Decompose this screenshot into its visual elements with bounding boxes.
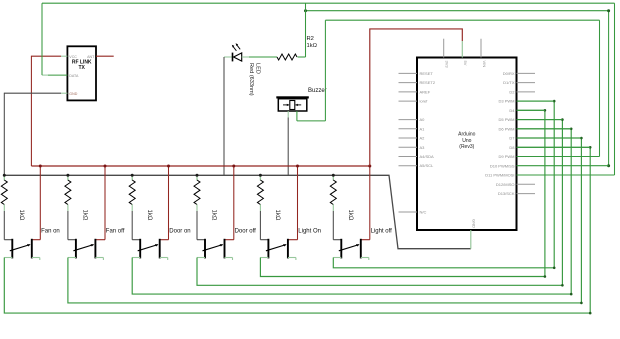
pushbutton S2 bottom right stub (green)	[95, 258, 103, 261]
wire RF VCC to red bus (red)	[31, 56, 67, 166]
svg-text:GND: GND	[472, 219, 477, 228]
svg-text:Door on: Door on	[169, 228, 190, 234]
Arduino pin D10 PWM/SS	[490, 163, 515, 168]
resistor R5 lead to button	[131, 205, 133, 240]
node junction staircase top 3	[570, 128, 573, 131]
node junction H2 start	[304, 9, 307, 12]
RF link TX pin label DATA	[69, 74, 79, 78]
svg-text:N/C: N/C	[420, 210, 427, 215]
buzzer BZ1 body	[276, 96, 309, 111]
Arduino pin A5/SCL	[399, 163, 435, 168]
wire buzzer pin2 to net H3 (green)	[297, 20, 326, 121]
svg-text:R2: R2	[307, 36, 314, 42]
pushbutton S1 bottom right stub (green)	[32, 258, 40, 261]
Arduino pin 5V with red wire to bus	[370, 29, 468, 166]
pushbutton S3 actuator	[138, 244, 159, 251]
svg-text:RESET2: RESET2	[420, 80, 436, 85]
wire button S6 to Arduino D pin (green)	[333, 101, 554, 268]
wire net H3: buzzer to D9 (green)	[325, 20, 599, 156]
svg-text:1kΩ: 1kΩ	[82, 210, 88, 221]
pushbutton S5 label	[298, 228, 321, 234]
Arduino Uno U1 body	[417, 58, 517, 231]
svg-text:D1/TX: D1/TX	[503, 80, 515, 85]
resistor R7 lead to button	[259, 205, 261, 240]
node junction red bus tap 2	[104, 165, 107, 168]
resistor R5 body	[129, 180, 135, 205]
svg-text:RESET: RESET	[420, 71, 434, 76]
svg-text:D5 PWM: D5 PWM	[499, 117, 515, 122]
wire buzzer pin1 to gray bus	[287, 111, 289, 175]
svg-text:A0: A0	[420, 117, 426, 122]
wire button S4 to Arduino D pin (green)	[197, 120, 562, 286]
svg-text:TX: TX	[79, 65, 86, 71]
node junction staircase bottom 5	[544, 275, 547, 278]
svg-text:D2: D2	[509, 89, 515, 94]
Arduino pin A0	[399, 117, 426, 122]
buzzer label	[308, 88, 327, 94]
Arduino pin GND (bottom) leg	[471, 219, 477, 249]
node junction staircase bottom 2	[580, 302, 583, 305]
svg-text:D6 PWM: D6 PWM	[499, 126, 515, 131]
Arduino pin N/C	[399, 210, 427, 215]
node junction staircase bottom 6	[553, 267, 556, 270]
wire LED anode to R2 (green)	[242, 56, 277, 58]
Arduino pin A2	[399, 136, 426, 141]
Arduino pin D6 PWM	[499, 126, 515, 131]
LED D1 cathode leg and wire to gray bus	[224, 57, 233, 175]
node junction red bus tap 5	[296, 165, 299, 168]
Arduino pin A1	[399, 126, 426, 131]
resistor R3 body	[1, 180, 7, 205]
svg-text:ioref: ioref	[420, 99, 429, 104]
wire red drop to button S1	[39, 166, 41, 240]
Arduino pin D13/SCK	[498, 191, 535, 196]
svg-text:1kΩ: 1kΩ	[274, 210, 280, 221]
svg-text:1kΩ: 1kΩ	[347, 210, 353, 221]
pushbutton S2 actuator	[73, 244, 94, 251]
pushbutton S2 label	[106, 228, 125, 234]
pushbutton S6 label	[371, 228, 393, 234]
pushbutton S3 right contact	[160, 239, 169, 259]
svg-text:5V: 5V	[463, 61, 468, 66]
wire button S1 to Arduino D pin (green)	[4, 147, 590, 313]
resistor R5 value label 1k	[146, 210, 152, 221]
wire button S3 to Arduino D pin (green)	[132, 129, 571, 294]
resistor R8 body	[330, 180, 336, 205]
pushbutton S4 bottom right stub (green)	[225, 258, 233, 261]
Arduino pin D3 PWM	[499, 99, 515, 104]
wire RF GND to gray bus (gray)	[4, 93, 67, 176]
resistor R6 lead to button	[196, 205, 198, 240]
Arduino pin RESET	[399, 71, 434, 76]
resistor R3 lead to button	[3, 205, 5, 240]
wire Arduino D6 (to button3 net)	[517, 128, 572, 130]
node junction D10 corner	[607, 164, 610, 167]
pushbutton S1 left contact	[4, 239, 12, 259]
node junction red bus tap 3	[167, 165, 170, 168]
pushbutton S2 right contact	[95, 239, 105, 259]
node junction staircase top 4	[561, 118, 564, 121]
resistor R3 leg to gray bus	[3, 175, 5, 180]
wire RF ANT stub (red, dangling)	[96, 55, 114, 57]
svg-text:D11 PWM/MOSI: D11 PWM/MOSI	[485, 173, 514, 178]
resistor R4 body	[65, 180, 71, 205]
svg-text:D8: D8	[509, 145, 515, 150]
svg-text:D3 PWM: D3 PWM	[499, 99, 515, 104]
node junction staircase bottom 1	[589, 312, 592, 315]
pushbutton S6 bottom right stub (green)	[361, 258, 369, 261]
wire Arduino D4 (to button5 net)	[517, 109, 545, 111]
resistor R3 value label 1k	[18, 210, 24, 221]
svg-text:A3: A3	[420, 145, 426, 150]
wire red drop to button S5	[297, 166, 299, 240]
resistor R4 value label 1k	[82, 210, 88, 221]
svg-text:D7: D7	[509, 136, 515, 141]
wire Arduino D3 (to button6 net)	[517, 100, 555, 102]
Arduino pin D11 PWM/MOSI	[485, 173, 514, 178]
Arduino pin D4	[509, 108, 515, 113]
svg-text:A2: A2	[420, 136, 426, 141]
node junction staircase bottom 3	[570, 293, 573, 296]
svg-text:GND: GND	[69, 92, 77, 96]
pushbutton S4 left contact	[197, 239, 205, 259]
node junction resistor R5 on gray bus	[131, 174, 134, 177]
node junction resistor R7 on gray bus	[259, 174, 262, 177]
LED D1 symbol	[233, 53, 242, 62]
svg-text:ANT: ANT	[87, 55, 95, 59]
pushbutton S1 actuator	[10, 244, 31, 251]
resistor R2 body	[277, 54, 297, 60]
Arduino pin AREF	[399, 89, 431, 94]
Arduino pin D5 PWM	[499, 117, 515, 122]
svg-text:AREF: AREF	[420, 89, 431, 94]
resistor R8 leg to gray bus	[332, 175, 334, 180]
Arduino pin 3V3 stub	[444, 39, 450, 69]
Arduino pin D1/TX	[503, 80, 535, 85]
svg-text:LED: LED	[255, 63, 261, 74]
LED D1 label	[248, 63, 261, 96]
resistor R7 value label 1k	[274, 210, 280, 221]
Arduino pin A3	[399, 145, 426, 150]
pushbutton S5 bottom right stub (green)	[288, 258, 296, 261]
svg-text:A1: A1	[420, 126, 426, 131]
pushbutton S2 left contact	[68, 239, 76, 259]
Arduino pin D7	[509, 136, 515, 141]
Arduino pin D12/MISO	[496, 182, 535, 187]
resistor R6 value label 1k	[211, 210, 217, 221]
svg-text:(Rev3): (Rev3)	[459, 144, 474, 150]
Arduino pin ioref	[399, 99, 429, 104]
svg-text:Uno: Uno	[462, 138, 471, 144]
node junction staircase top 2	[580, 137, 583, 140]
resistor R4 lead to button	[67, 205, 69, 240]
svg-text:Fan on: Fan on	[41, 228, 60, 234]
resistor R8 lead to button	[332, 205, 334, 240]
wire gray bus to Arduino GND	[4, 175, 471, 248]
node junction staircase top 1	[589, 146, 592, 149]
svg-text:DATA: DATA	[69, 74, 79, 78]
svg-text:1kΩ: 1kΩ	[211, 210, 217, 221]
svg-text:D4: D4	[509, 108, 515, 113]
wire net H1: RF DATA to D11 (green, top)	[42, 3, 615, 175]
pushbutton S5 right contact	[288, 239, 298, 259]
wire red drop to button S2	[104, 166, 106, 240]
RF link TX pin label GND	[69, 92, 77, 96]
RF link TX pin label VCC	[69, 55, 77, 59]
LED D1 emission arrows	[232, 43, 240, 51]
pushbutton S5 actuator	[266, 244, 287, 251]
svg-text:A4/SDA: A4/SDA	[420, 154, 435, 159]
pushbutton S6 left contact	[333, 239, 341, 259]
svg-text:D10 PWM/SS: D10 PWM/SS	[490, 163, 515, 168]
pushbutton S4 right contact	[225, 239, 234, 259]
svg-text:A5/SCL: A5/SCL	[420, 163, 435, 168]
RF link TX module U2 body	[67, 46, 96, 100]
Arduino pin D2	[509, 89, 535, 94]
svg-text:Buzzer: Buzzer	[308, 88, 327, 94]
node junction staircase top 6	[553, 100, 556, 103]
svg-text:Arduino: Arduino	[458, 132, 475, 138]
resistor R8 value label 1k	[347, 210, 353, 221]
wire red 5V bus (horizontal)	[31, 165, 369, 167]
svg-text:1kΩ: 1kΩ	[146, 210, 152, 221]
Arduino pin A4/SDA	[399, 154, 435, 159]
resistor R5 leg to gray bus	[131, 175, 133, 180]
wire net H2: R2/LED node to D10 (green)	[306, 11, 609, 166]
svg-text:VCC: VCC	[69, 55, 77, 59]
wire button S2 to Arduino D pin (green)	[68, 138, 582, 303]
Arduino pin D8	[509, 145, 515, 150]
pushbutton S1 right contact	[32, 239, 41, 259]
svg-text:Door off: Door off	[235, 228, 257, 234]
svg-text:1kΩ: 1kΩ	[307, 43, 318, 49]
wire red drop to button S3	[168, 166, 170, 240]
pushbutton S5 left contact	[260, 239, 268, 259]
resistor R6 leg to gray bus	[196, 175, 198, 180]
svg-text:Light off: Light off	[371, 228, 393, 234]
pushbutton S3 left contact	[132, 239, 140, 259]
wire R2 to vertical node (green)	[298, 3, 306, 57]
svg-text:Red (633nm): Red (633nm)	[248, 63, 254, 96]
resistor R7 leg to gray bus	[259, 175, 261, 180]
node junction staircase bottom 4	[561, 284, 564, 287]
pushbutton S6 actuator	[339, 244, 360, 251]
svg-text:D12/MISO: D12/MISO	[496, 182, 515, 187]
Arduino pin RESET2	[399, 80, 436, 85]
node junction red bus tap 4	[232, 165, 235, 168]
wire Arduino D11 (to net H1)	[517, 174, 615, 176]
wire Arduino D5 (to button4 net)	[517, 119, 563, 121]
svg-text:D0/RX: D0/RX	[503, 71, 515, 76]
Arduino pin VIN stub	[481, 39, 487, 68]
resistor R6 body	[194, 180, 200, 205]
svg-text:Light On: Light On	[298, 228, 321, 234]
wire button S5 to Arduino D pin (green)	[260, 110, 545, 276]
node junction resistor R8 on gray bus	[332, 174, 335, 177]
wire red drop to button S4	[233, 166, 235, 240]
node junction red bus end	[368, 165, 371, 168]
pushbutton S4 actuator	[203, 244, 224, 251]
node junction red bus tap 1	[39, 165, 42, 168]
node junction H2 corner	[607, 9, 610, 12]
resistor R7 body	[257, 180, 263, 205]
node junction resistor R4 on gray bus	[66, 174, 69, 177]
node junction staircase top 5	[544, 109, 547, 112]
RF link TX pin label ANT	[87, 55, 95, 59]
resistor R2 label	[307, 36, 318, 49]
resistor R4 leg to gray bus	[67, 175, 69, 180]
Arduino pin D0/RX	[503, 71, 535, 76]
svg-text:3V3: 3V3	[445, 61, 450, 69]
svg-text:D9 PWM: D9 PWM	[499, 154, 515, 159]
node junction resistor R3 on gray bus	[3, 174, 6, 177]
Arduino pin D9 PWM	[499, 154, 515, 159]
pushbutton S6 right contact	[361, 239, 370, 259]
wire Arduino D9 (to buzzer net H3)	[517, 156, 600, 158]
wire Arduino D10 (to net H2)	[517, 165, 609, 167]
svg-text:Fan off: Fan off	[106, 228, 125, 234]
pushbutton S4 label	[235, 228, 257, 234]
wire Arduino D8 (to button1 net)	[517, 146, 591, 148]
wire red drop to button S6 (bus end)	[369, 166, 371, 240]
svg-text:D13/SCK: D13/SCK	[498, 191, 515, 196]
pushbutton S3 label	[169, 228, 190, 234]
pushbutton S3 bottom right stub (green)	[160, 258, 168, 261]
node junction resistor R6 on gray bus	[196, 174, 199, 177]
wire Arduino D7 (to button2 net)	[517, 137, 582, 139]
pushbutton S1 label	[41, 228, 60, 234]
svg-text:VIN: VIN	[482, 61, 487, 68]
wire RF DATA to top net (green)	[42, 3, 67, 75]
svg-text:1kΩ: 1kΩ	[18, 210, 24, 221]
